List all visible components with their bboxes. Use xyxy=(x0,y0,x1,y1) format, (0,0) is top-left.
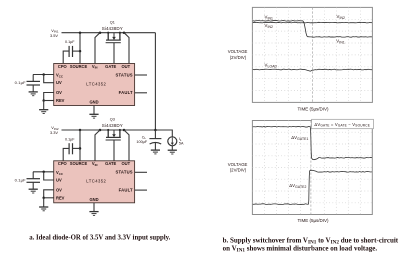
wire down to ground from OV/REV xyxy=(43,101,45,110)
svg-text:0.1µF: 0.1µF xyxy=(65,40,75,44)
junction output bus xyxy=(154,129,157,132)
svg-text:GND: GND xyxy=(89,197,98,202)
svg-text:REV: REV xyxy=(56,195,65,200)
ground GND pin xyxy=(89,211,98,213)
svg-text:ΔVGATE = VGATE − VSOURCE: ΔVGATE = VGATE − VSOURCE xyxy=(314,122,370,128)
trace dVGATE2 plot2 xyxy=(253,170,372,204)
capacitor C1b 0.1uF VCC bypass xyxy=(32,75,34,82)
junction REV tie xyxy=(42,99,45,102)
svg-text:LTC4352: LTC4352 xyxy=(86,81,106,86)
wire FAULT stub xyxy=(135,189,147,191)
capacitor C3a 0.1uF (CPO-SOURCE) xyxy=(72,143,74,154)
svg-text:(2V/DIV): (2V/DIV) xyxy=(230,55,247,60)
wire GND pin xyxy=(93,106,95,115)
op-amp U3 LTC4352 controller block xyxy=(54,161,135,203)
svg-text:UV: UV xyxy=(56,80,62,85)
legend box dVGATE definition xyxy=(312,119,374,128)
svg-text:100µF: 100µF xyxy=(136,140,148,144)
ground OV/REV xyxy=(39,206,48,208)
junction on input rail to VIN pin xyxy=(99,129,102,132)
svg-text:OUT: OUT xyxy=(121,64,130,69)
wire OV to REV tie xyxy=(44,190,54,198)
svg-text:VOLTAGE: VOLTAGE xyxy=(228,49,248,54)
wire FAULT stub xyxy=(135,92,147,94)
wire STATUS stub xyxy=(135,171,147,173)
svg-text:GATE: GATE xyxy=(105,161,116,166)
svg-text:Q3: Q3 xyxy=(110,118,115,122)
junction REV tie xyxy=(42,197,45,200)
svg-text:STATUS: STATUS xyxy=(115,72,132,77)
wire REV pin xyxy=(44,100,54,102)
wire input rail from VIN2 xyxy=(62,129,156,131)
wire OV to REV tie xyxy=(44,93,54,101)
wire SOURCE pin drop xyxy=(79,130,81,161)
svg-text:REV: REV xyxy=(56,98,65,103)
ground CL xyxy=(151,149,160,151)
capacitor C3b 0.1uF VCC bypass xyxy=(32,172,34,179)
wire REV pin xyxy=(44,197,54,199)
wire cap to SOURCE xyxy=(73,50,80,52)
ground IL xyxy=(168,149,177,151)
wire VCC pin xyxy=(33,171,54,173)
svg-text:FAULT: FAULT xyxy=(119,188,133,193)
ground VCC bypass xyxy=(29,188,38,190)
svg-text:GND: GND xyxy=(89,100,98,105)
svg-text:VCC: VCC xyxy=(56,170,64,176)
svg-text:5A: 5A xyxy=(179,142,184,146)
wire UV tie to VCC xyxy=(44,75,54,83)
wire OUT pin diagonal xyxy=(124,33,129,64)
transistor Q3 Si4438DY N-MOSFET xyxy=(102,118,123,161)
svg-text:(2V/DIV): (2V/DIV) xyxy=(230,168,247,173)
ground VCC bypass xyxy=(29,91,38,93)
svg-text:CPO: CPO xyxy=(58,161,68,166)
wire cap to CPO pin xyxy=(63,51,69,63)
svg-text:SOURCE: SOURCE xyxy=(70,64,88,69)
svg-text:VOLTAGE: VOLTAGE xyxy=(228,162,248,167)
wire GND pin xyxy=(93,203,95,212)
svg-text:Si4438DY: Si4438DY xyxy=(102,26,123,31)
svg-text:SOURCE: SOURCE xyxy=(70,161,88,166)
ground OV/REV xyxy=(39,109,48,111)
svg-text:0.1µF: 0.1µF xyxy=(15,80,26,85)
svg-text:on VIN1 shows minimal disturba: on VIN1 shows minimal disturbance on loa… xyxy=(223,245,378,254)
junction on input rail to VIN pin xyxy=(99,31,102,34)
svg-text:OV: OV xyxy=(56,90,62,95)
svg-text:TIME (5µs/DIV): TIME (5µs/DIV) xyxy=(297,218,329,223)
load current source IL xyxy=(168,137,177,146)
axis label VOLTAGE plot1 xyxy=(228,49,329,112)
svg-text:3.5V: 3.5V xyxy=(50,33,58,38)
svg-text:STATUS: STATUS xyxy=(115,170,132,175)
scope plot 2 frame and grid xyxy=(252,121,372,215)
wire UV tie to VCC xyxy=(44,172,54,180)
svg-text:VIN: VIN xyxy=(92,161,98,167)
wire cap to SOURCE xyxy=(73,147,80,149)
transistor Q1 Si4438DY N-MOSFET xyxy=(102,20,123,63)
op-amp U1 LTC4352 controller block xyxy=(54,64,135,106)
wire output bus vertical xyxy=(154,33,156,130)
ground GND pin xyxy=(89,113,98,115)
junction VCC/UV tie xyxy=(42,171,45,174)
trace dVGATE1 plot2 xyxy=(253,126,372,159)
svg-text:VCC: VCC xyxy=(56,73,64,79)
wire VCC pin xyxy=(33,74,54,76)
svg-text:Si4438DY: Si4438DY xyxy=(102,123,123,128)
junction cap tap on SOURCE wire xyxy=(79,147,82,150)
svg-text:0.1µF: 0.1µF xyxy=(15,178,26,183)
junction on input rail to SOURCE pin xyxy=(79,129,82,132)
caption b xyxy=(223,236,399,253)
trace VLOAD plot1 xyxy=(253,69,372,71)
wire down to ground from OV/REV xyxy=(43,198,45,207)
trace VIN1 plot1 xyxy=(253,21,372,38)
svg-text:VIN: VIN xyxy=(92,64,98,70)
svg-text:CPO: CPO xyxy=(58,64,68,69)
svg-text:OUT: OUT xyxy=(121,161,130,166)
capacitor CL 100uF xyxy=(154,130,156,138)
wire output rail to load xyxy=(155,130,172,137)
svg-text:OV: OV xyxy=(56,187,62,192)
wire VIN pin diagonal xyxy=(95,130,100,161)
svg-text:UV: UV xyxy=(56,178,62,183)
svg-text:TIME (5µs/DIV): TIME (5µs/DIV) xyxy=(297,106,329,111)
capacitor C1a 0.1uF (CPO-SOURCE) xyxy=(72,46,74,57)
svg-text:a. Ideal diode-OR of 3.5V and: a. Ideal diode-OR of 3.5V and 3.3V input… xyxy=(29,234,170,242)
wire input rail from VIN1 xyxy=(62,32,156,34)
junction on output side to OUT pin xyxy=(123,31,126,34)
svg-text:Q1: Q1 xyxy=(110,20,115,24)
svg-text:LTC4352: LTC4352 xyxy=(86,179,106,184)
junction cap tap on SOURCE wire xyxy=(79,50,82,53)
wire OUT pin diagonal xyxy=(124,130,129,161)
wire SOURCE pin drop xyxy=(79,33,81,64)
wire STATUS stub xyxy=(135,74,147,76)
axis label VOLTAGE plot2 xyxy=(228,162,329,223)
junction on input rail to SOURCE pin xyxy=(79,31,82,34)
junction on output side to OUT pin xyxy=(123,129,126,132)
svg-text:3.3V: 3.3V xyxy=(50,130,58,135)
scope plot 1 frame and grid xyxy=(252,7,372,102)
svg-text:GATE: GATE xyxy=(105,64,116,69)
junction VCC/UV tie xyxy=(42,73,45,76)
wire cap to CPO pin xyxy=(63,148,69,160)
trace VIN2 plot1 xyxy=(253,21,372,24)
wire VIN pin diagonal xyxy=(95,33,100,64)
svg-text:0.1µF: 0.1µF xyxy=(65,137,75,141)
svg-text:FAULT: FAULT xyxy=(119,90,133,95)
